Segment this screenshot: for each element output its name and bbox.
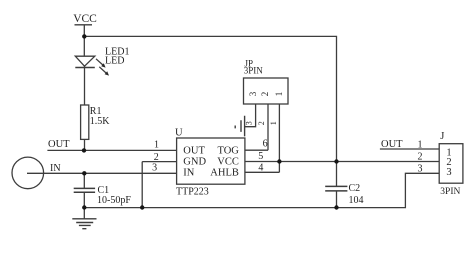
svg-text:2: 2 xyxy=(154,152,159,163)
svg-text:3: 3 xyxy=(248,91,258,96)
svg-text:1: 1 xyxy=(418,140,423,151)
svg-text:TOG: TOG xyxy=(218,146,240,157)
svg-text:OUT: OUT xyxy=(183,146,205,157)
svg-text:2: 2 xyxy=(257,121,266,125)
svg-text:10-50pF: 10-50pF xyxy=(97,195,131,206)
svg-text:AHLB: AHLB xyxy=(210,168,239,179)
svg-text:5: 5 xyxy=(258,151,263,162)
svg-text:1: 1 xyxy=(269,121,278,125)
svg-text:6: 6 xyxy=(263,138,268,149)
svg-text:2: 2 xyxy=(260,92,270,97)
svg-text:VCC: VCC xyxy=(73,13,97,25)
svg-text:3PIN: 3PIN xyxy=(244,66,264,76)
svg-text:OUT: OUT xyxy=(48,139,70,150)
svg-text:C2: C2 xyxy=(349,183,361,194)
svg-text:OUT: OUT xyxy=(381,139,403,150)
svg-text:IN: IN xyxy=(50,163,61,174)
svg-text:104: 104 xyxy=(349,195,364,206)
svg-text:U: U xyxy=(175,128,183,139)
svg-text:LED: LED xyxy=(105,56,124,67)
svg-text:VCC: VCC xyxy=(217,156,239,167)
svg-text:2: 2 xyxy=(418,152,423,163)
svg-text:3: 3 xyxy=(152,162,157,173)
svg-text:4: 4 xyxy=(258,162,263,173)
svg-text:GND: GND xyxy=(183,156,206,167)
svg-text:1.5K: 1.5K xyxy=(90,116,111,127)
svg-text:3: 3 xyxy=(446,167,451,178)
svg-text:J: J xyxy=(440,131,444,142)
svg-text:3: 3 xyxy=(418,163,423,174)
svg-text:1: 1 xyxy=(154,140,159,151)
svg-text:TTP223: TTP223 xyxy=(176,187,209,198)
svg-text:3: 3 xyxy=(245,121,254,125)
svg-text:1: 1 xyxy=(274,92,284,97)
svg-text:C1: C1 xyxy=(98,185,110,196)
svg-text:IN: IN xyxy=(183,168,194,179)
svg-text:3PIN: 3PIN xyxy=(440,187,460,197)
